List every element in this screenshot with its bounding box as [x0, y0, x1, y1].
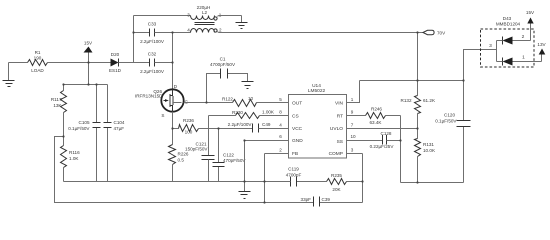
wire	[155, 62, 173, 64]
svg-text:VCC: VCC	[292, 126, 303, 132]
wire bottom rail	[64, 181, 291, 183]
svg-text:2: 2	[522, 34, 525, 40]
diode D43b	[497, 55, 542, 66]
svg-text:COMP: COMP	[329, 151, 343, 157]
resistor R131	[415, 139, 436, 183]
capacitor C104	[104, 85, 125, 182]
svg-text:C119: C119	[288, 167, 299, 172]
wire gate	[184, 102, 233, 104]
IC U1 LM5022	[289, 83, 347, 158]
wire	[133, 16, 135, 63]
wire source	[172, 112, 174, 145]
svg-text:IRFR13N15D: IRFR13N15D	[135, 94, 163, 99]
svg-text:ES1D: ES1D	[109, 68, 122, 73]
node 13V arrow	[537, 42, 546, 55]
svg-text:1.00K: 1.00K	[262, 110, 275, 115]
wire	[64, 63, 108, 85]
svg-text:C49: C49	[262, 122, 271, 127]
resistor R230	[232, 110, 275, 119]
svg-text:R122: R122	[222, 97, 233, 102]
wire right vertical 70V to R132	[417, 33, 419, 96]
svg-text:61.2K: 61.2K	[423, 98, 436, 103]
wire	[496, 41, 498, 62]
svg-text:15V: 15V	[526, 10, 535, 15]
svg-text:10: 10	[248, 96, 254, 101]
wire	[134, 15, 191, 17]
wire	[387, 140, 401, 142]
svg-text:C120: C120	[444, 113, 455, 118]
capacitor C119	[286, 167, 302, 187]
ground	[3, 63, 15, 87]
svg-text:R1: R1	[35, 50, 41, 55]
svg-text:4700pF: 4700pF	[286, 173, 302, 178]
svg-text:R230: R230	[232, 110, 243, 115]
svg-text:C33: C33	[148, 22, 157, 27]
node 15V arrow right	[526, 10, 535, 24]
diode D20	[109, 52, 122, 73]
svg-text:190: 190	[34, 55, 42, 60]
wire	[260, 115, 289, 117]
wire D43 pin3 net	[464, 50, 497, 81]
svg-text:3: 3	[351, 147, 354, 152]
wire 70V net	[219, 32, 423, 34]
wire COMP net	[347, 154, 363, 203]
capacitor C128	[370, 131, 395, 149]
svg-text:G: G	[185, 99, 189, 104]
svg-text:R131: R131	[423, 142, 434, 147]
svg-text:5: 5	[279, 97, 282, 102]
diode D43a	[497, 24, 531, 45]
resistor R117	[51, 85, 67, 146]
wire	[259, 128, 289, 130]
wire GND net	[245, 141, 289, 182]
connector 70V	[423, 30, 446, 35]
capacitor C120	[435, 81, 470, 183]
svg-text:0.22µF/25V: 0.22µF/25V	[370, 144, 395, 149]
svg-text:R117: R117	[51, 97, 62, 102]
svg-text:R235: R235	[331, 173, 342, 178]
svg-text:2.2µF/100V: 2.2µF/100V	[140, 69, 165, 74]
wire VIN net	[347, 81, 464, 103]
svg-text:10.0K: 10.0K	[423, 148, 436, 153]
svg-text:C105: C105	[79, 120, 90, 125]
svg-text:3: 3	[489, 43, 492, 49]
svg-text:U14: U14	[312, 83, 321, 89]
svg-text:0.5: 0.5	[178, 158, 185, 163]
svg-text:CS: CS	[292, 113, 299, 119]
wire feedback loop bottom	[55, 137, 363, 203]
resistor R1	[28, 50, 48, 73]
svg-text:4: 4	[187, 28, 190, 33]
wire VCC net	[219, 128, 253, 130]
svg-text:100: 100	[185, 130, 193, 135]
svg-text:8: 8	[279, 110, 282, 115]
svg-text:R246: R246	[371, 107, 382, 112]
capacitor C1	[207, 57, 248, 103]
resistor R235	[327, 173, 347, 192]
svg-text:47µF: 47µF	[114, 126, 125, 131]
capacitor C32	[140, 52, 165, 75]
svg-text:150pF/50V: 150pF/50V	[185, 147, 208, 152]
svg-text:1: 1	[219, 12, 222, 17]
svg-text:1.0K: 1.0K	[69, 156, 79, 161]
svg-text:C32: C32	[148, 52, 157, 57]
svg-text:SS: SS	[337, 139, 343, 145]
svg-text:FB: FB	[292, 151, 298, 157]
svg-text:D20: D20	[111, 52, 120, 57]
svg-text:15V: 15V	[84, 41, 93, 46]
wire	[257, 102, 289, 104]
svg-text:63.4K: 63.4K	[369, 120, 382, 125]
svg-text:10: 10	[350, 134, 356, 139]
svg-text:6: 6	[279, 134, 282, 139]
wire FB net	[265, 154, 289, 203]
svg-text:L2: L2	[202, 10, 208, 15]
svg-text:LM5022: LM5022	[308, 88, 326, 94]
svg-text:2: 2	[279, 147, 282, 152]
svg-text:OUT: OUT	[292, 101, 302, 107]
diode array D43 box	[481, 16, 535, 67]
wire	[119, 62, 150, 64]
capacitor C105	[68, 85, 100, 182]
svg-text:R132: R132	[401, 98, 412, 103]
wire	[134, 32, 150, 34]
wire right bottom rail	[401, 182, 464, 184]
wire SS net	[347, 140, 383, 142]
capacitor C121	[185, 141, 214, 181]
svg-text:C1: C1	[220, 57, 226, 62]
svg-text:C128: C128	[381, 131, 392, 136]
resistor R226	[169, 145, 189, 182]
svg-text:0.1µF/50V: 0.1µF/50V	[68, 126, 90, 131]
wire CS net	[209, 116, 236, 156]
wire UVLO net	[347, 128, 418, 130]
svg-text:13K: 13K	[53, 103, 62, 108]
svg-text:33pF: 33pF	[301, 197, 312, 202]
svg-text:VIN: VIN	[335, 101, 344, 107]
svg-text:R116: R116	[69, 150, 80, 155]
resistor R246	[366, 107, 386, 125]
svg-text:4700pF/50V: 4700pF/50V	[210, 62, 236, 67]
svg-text:S: S	[161, 113, 164, 118]
svg-text:MMBD1204: MMBD1204	[496, 21, 521, 26]
svg-text:D43: D43	[503, 16, 512, 21]
resistor R132	[401, 96, 436, 139]
svg-text:UVLO: UVLO	[330, 126, 343, 132]
wire RT net	[347, 115, 366, 117]
ground	[239, 182, 251, 199]
wire	[48, 62, 111, 64]
svg-text:R226: R226	[178, 152, 189, 157]
svg-text:C104: C104	[114, 120, 125, 125]
svg-text:470pF/50V: 470pF/50V	[223, 158, 246, 163]
svg-text:0.1µF/50V: 0.1µF/50V	[435, 119, 457, 124]
svg-text:9: 9	[351, 110, 354, 115]
svg-text:LOAD: LOAD	[31, 68, 44, 73]
wire	[9, 62, 28, 64]
ground	[242, 82, 254, 89]
capacitor C49	[228, 122, 271, 133]
svg-text:2.2µF/100V: 2.2µF/100V	[140, 39, 165, 44]
node 15V supply	[84, 41, 94, 63]
svg-text:GND: GND	[292, 138, 303, 144]
wire comp rail	[297, 181, 363, 183]
svg-text:RT: RT	[337, 113, 343, 119]
svg-text:20K: 20K	[332, 187, 341, 192]
wire	[219, 15, 242, 17]
svg-text:1: 1	[522, 55, 525, 61]
svg-text:2.2µF/100V: 2.2µF/100V	[228, 122, 253, 127]
svg-text:4: 4	[279, 122, 282, 127]
svg-text:2: 2	[219, 28, 222, 33]
svg-text:70V: 70V	[437, 31, 446, 36]
wire	[386, 116, 401, 183]
svg-text:7: 7	[351, 122, 354, 127]
svg-text:3: 3	[187, 12, 190, 17]
resistor R122	[222, 96, 256, 106]
wire drain	[172, 33, 174, 90]
svg-text:R236: R236	[183, 118, 194, 123]
resistor R116	[61, 146, 81, 182]
svg-text:13V: 13V	[537, 42, 546, 47]
capacitor C122	[213, 129, 247, 182]
capacitor C33	[140, 22, 165, 45]
svg-text:1: 1	[351, 97, 354, 102]
wire	[155, 32, 191, 34]
ground	[236, 16, 248, 29]
transistor Q26	[135, 84, 189, 118]
resistor R236	[173, 118, 219, 135]
svg-text:C122: C122	[223, 153, 234, 158]
capacitor C39	[301, 197, 331, 207]
svg-text:C39: C39	[322, 197, 331, 202]
inductor L2	[187, 5, 222, 33]
